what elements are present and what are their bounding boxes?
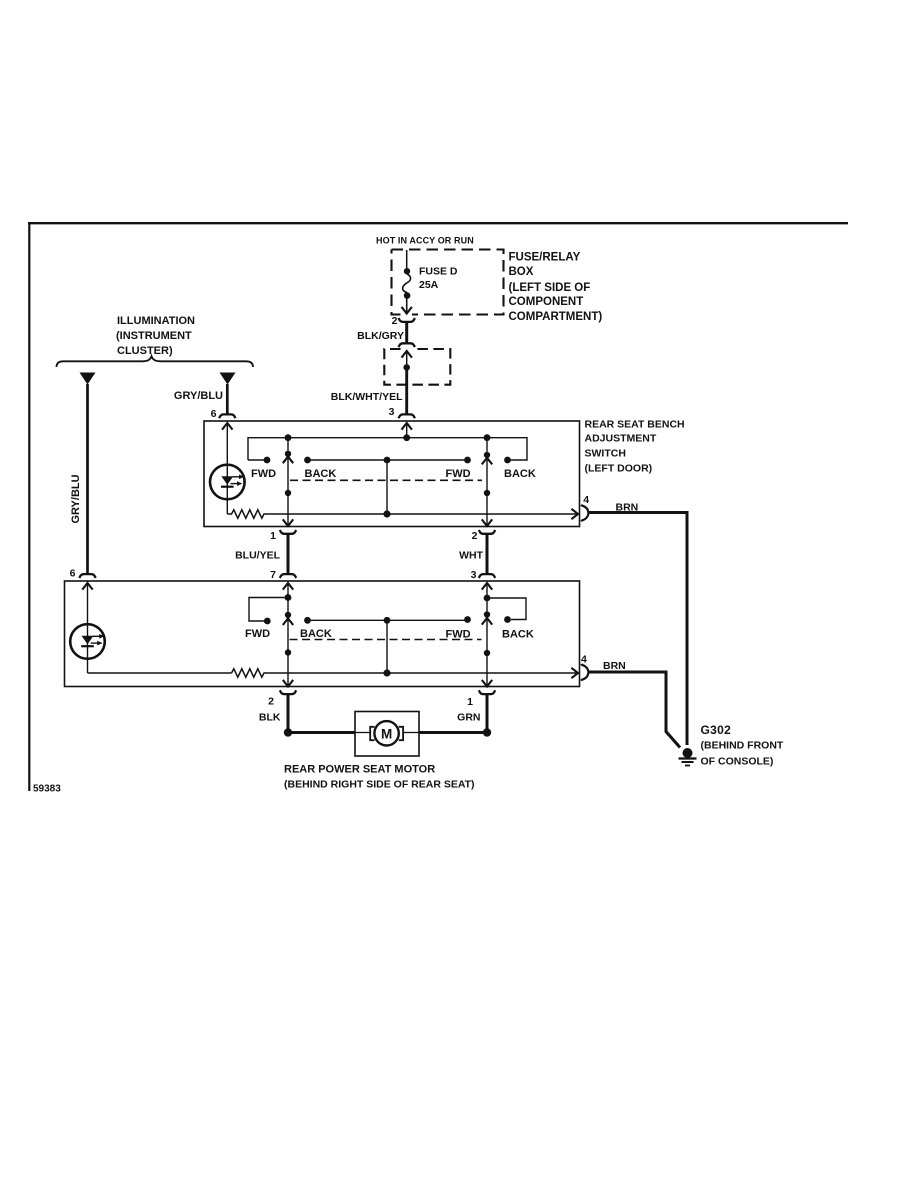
svg-text:BOX: BOX bbox=[509, 266, 534, 278]
fuse/relay box dashed outline bbox=[392, 250, 504, 315]
switch 1 left BACK contact bbox=[304, 457, 311, 464]
switch 2 pin 7 entry arrow bbox=[283, 583, 293, 590]
svg-text:(LEFT DOOR): (LEFT DOOR) bbox=[585, 463, 653, 475]
svg-text:1: 1 bbox=[270, 530, 276, 542]
switch 2 pin 3 entry arrow bbox=[482, 583, 492, 590]
switch 2 right FWD contact bbox=[464, 616, 471, 623]
switch 1 pin 3 entry arrow bbox=[402, 423, 412, 430]
svg-text:(INSTRUMENT: (INSTRUMENT bbox=[116, 330, 192, 342]
wire BRN from switch 2 pin 4 to ground bbox=[588, 672, 680, 748]
svg-text:BLK: BLK bbox=[259, 712, 281, 724]
svg-text:COMPARTMENT): COMPARTMENT) bbox=[509, 311, 603, 323]
node GRN junction bbox=[483, 728, 491, 736]
fuse D 25A symbol bbox=[404, 268, 410, 274]
svg-text:BLK/WHT/YEL: BLK/WHT/YEL bbox=[331, 391, 403, 403]
svg-text:COMPONENT: COMPONENT bbox=[509, 296, 584, 308]
switch 1 pin 2 connector bbox=[479, 530, 495, 534]
svg-text:25A: 25A bbox=[419, 279, 439, 291]
switch 1 rear seat bench adjustment switch box bbox=[204, 421, 580, 527]
switch 1 pin 6 internal wire bbox=[226, 423, 228, 514]
switch 2 pin 7 connector bbox=[280, 574, 296, 578]
svg-text:2: 2 bbox=[268, 696, 274, 708]
illumination LED lamp 2 bbox=[70, 624, 105, 659]
wire GRY/BLU right vertical bbox=[226, 384, 229, 414]
svg-text:HOT IN ACCY OR RUN: HOT IN ACCY OR RUN bbox=[376, 236, 474, 246]
switch 2 pin 4 connector bbox=[581, 664, 588, 681]
switch 1 left FWD contact bbox=[264, 457, 271, 464]
switch 1 mechanical coupling dashed line bbox=[290, 479, 482, 481]
switch 1 left pole bbox=[283, 438, 293, 526]
svg-text:FWD: FWD bbox=[245, 628, 270, 640]
switch 1 pin 3 internal wire bbox=[406, 423, 408, 438]
svg-text:GRY/BLU: GRY/BLU bbox=[174, 390, 223, 402]
svg-text:2: 2 bbox=[392, 315, 398, 327]
svg-text:G302: G302 bbox=[701, 723, 732, 737]
switch 2 pin 4 arrow right bbox=[571, 668, 578, 678]
junction block small dashed box bbox=[384, 349, 450, 385]
wire to motor left bbox=[288, 731, 355, 734]
svg-text:BRN: BRN bbox=[603, 660, 626, 672]
switch 1 bottom rail to pin 4 bbox=[267, 513, 579, 515]
junction dot bottom rail switch 2 bbox=[383, 669, 390, 676]
switch 1 right pole bbox=[482, 438, 492, 526]
switch 2 bottom rail to pin 4 bbox=[267, 672, 579, 674]
switch 2 right BACK contact bbox=[504, 616, 511, 623]
switch 2 pin 6 connector bbox=[79, 574, 95, 578]
wire BLK/WHT/YEL bbox=[405, 367, 408, 414]
junction dots top rail switch 1 bbox=[285, 434, 292, 441]
wire BRN from switch 1 pin 4 to ground bbox=[588, 513, 687, 746]
svg-text:(BEHIND FRONT: (BEHIND FRONT bbox=[701, 740, 784, 752]
svg-text:59383: 59383 bbox=[33, 784, 61, 795]
wire BLK bbox=[287, 694, 290, 732]
ground G302 bbox=[679, 748, 697, 766]
switch 2 mechanical coupling dashed line bbox=[290, 639, 482, 641]
switch 1 right FWD contact bbox=[464, 457, 471, 464]
svg-text:ADJUSTMENT: ADJUSTMENT bbox=[585, 433, 657, 445]
svg-text:6: 6 bbox=[70, 568, 76, 580]
switch 2 pin 2 exit arrow bbox=[283, 680, 293, 687]
svg-text:SWITCH: SWITCH bbox=[585, 448, 626, 460]
svg-text:(BEHIND RIGHT SIDE OF REAR SEA: (BEHIND RIGHT SIDE OF REAR SEAT) bbox=[284, 779, 475, 791]
node BLK junction bbox=[284, 728, 292, 736]
switch 2 left FWD contact bbox=[264, 618, 271, 625]
svg-text:4: 4 bbox=[583, 494, 589, 506]
switch 2 right pole bbox=[482, 583, 492, 687]
svg-text:BRN: BRN bbox=[616, 502, 639, 514]
switch 2 left BACK contact bbox=[304, 617, 311, 624]
wire BLK/GRY bbox=[405, 322, 408, 343]
illumination LED lamp 1 bbox=[210, 465, 245, 500]
svg-text:FUSE D: FUSE D bbox=[419, 266, 458, 278]
svg-text:6: 6 bbox=[211, 408, 217, 420]
wire GRY/BLU left vertical bbox=[86, 384, 89, 574]
arrow into junction block pointing up bbox=[402, 351, 412, 358]
wire GRN bbox=[486, 694, 489, 732]
switch 1 pin 4 arrow right bbox=[571, 509, 578, 519]
svg-text:BLU/YEL: BLU/YEL bbox=[235, 550, 281, 562]
switch 2 pin 3 connector bbox=[479, 574, 495, 578]
arrow out of fuse pointing down bbox=[406, 298, 408, 313]
switch 2 pin 6 entry arrow bbox=[82, 583, 92, 590]
svg-text:REAR POWER SEAT MOTOR: REAR POWER SEAT MOTOR bbox=[284, 764, 435, 776]
switch 2 pin 1 connector bbox=[479, 690, 495, 694]
brace over illumination feeds bbox=[57, 356, 254, 367]
frame top border bbox=[28, 222, 848, 224]
svg-text:FWD: FWD bbox=[446, 468, 471, 480]
svg-text:GRY/BLU: GRY/BLU bbox=[70, 474, 82, 523]
svg-text:4: 4 bbox=[581, 654, 587, 666]
switch 1 middle vertical wire bbox=[386, 460, 388, 514]
switch 2 pin 2 connector bbox=[280, 690, 296, 694]
svg-text:OF CONSOLE): OF CONSOLE) bbox=[701, 756, 774, 768]
switch 1 pin 6 entry arrow bbox=[222, 423, 232, 430]
svg-text:BACK: BACK bbox=[305, 468, 337, 480]
svg-text:BACK: BACK bbox=[502, 629, 534, 641]
switch 2 box bbox=[65, 581, 580, 687]
switch 1 pin 1 exit arrow bbox=[283, 519, 293, 526]
frame left border bbox=[28, 222, 30, 791]
connector into junction block bbox=[399, 343, 415, 347]
switch 2 pin 6 internal wire bbox=[87, 583, 89, 673]
svg-text:ILLUMINATION: ILLUMINATION bbox=[117, 315, 195, 327]
connector at switch 1 pin 3 bbox=[399, 414, 415, 418]
svg-text:GRN: GRN bbox=[457, 712, 480, 724]
switch 1 pin 2 exit arrow bbox=[482, 519, 492, 526]
rear power seat motor M1 bbox=[355, 712, 419, 757]
switch 1 resistor bbox=[227, 510, 266, 518]
switch 2 bottom rail left segment bbox=[88, 672, 232, 674]
switch 1 pin 1 connector bbox=[280, 530, 296, 534]
svg-text:7: 7 bbox=[270, 569, 276, 581]
svg-text:2: 2 bbox=[472, 530, 478, 542]
svg-text:BACK: BACK bbox=[300, 628, 332, 640]
svg-text:(LEFT SIDE OF: (LEFT SIDE OF bbox=[509, 282, 591, 294]
svg-text:FUSE/RELAY: FUSE/RELAY bbox=[509, 252, 581, 264]
svg-text:CLUSTER): CLUSTER) bbox=[117, 345, 173, 357]
switch 1 contact rail bbox=[308, 459, 468, 461]
illumination feed terminal right (triangle) bbox=[220, 373, 236, 385]
switch 2 contact rail bbox=[308, 619, 468, 621]
junction node dot bbox=[403, 364, 410, 371]
wire from hot feed into fuse bbox=[406, 250, 408, 268]
connector at switch 1 pin 6 bbox=[219, 414, 235, 418]
svg-text:1: 1 bbox=[467, 696, 473, 708]
switch 2 pin 1 exit arrow bbox=[482, 680, 492, 687]
svg-text:WHT: WHT bbox=[459, 550, 483, 562]
connector at fuse box pin 2 bbox=[399, 318, 415, 322]
illumination feed terminal left (triangle) bbox=[80, 373, 96, 385]
switch 2 left pole bbox=[283, 583, 293, 687]
switch 2 left L-wire to FWD contact bbox=[249, 598, 288, 622]
switch 2 middle vertical wire bbox=[386, 620, 388, 673]
svg-text:FWD: FWD bbox=[251, 468, 276, 480]
wire WHT bbox=[486, 534, 489, 574]
switch 1 pin 4 connector bbox=[581, 505, 588, 522]
junction dot bottom rail switch 1 bbox=[383, 510, 390, 517]
svg-text:3: 3 bbox=[471, 569, 477, 581]
switch 1 top rail bbox=[248, 438, 527, 460]
svg-text:3: 3 bbox=[389, 406, 395, 418]
wire BLU/YEL bbox=[287, 534, 290, 574]
svg-text:BACK: BACK bbox=[504, 468, 536, 480]
svg-text:REAR SEAT BENCH: REAR SEAT BENCH bbox=[585, 419, 685, 431]
wire to motor right bbox=[419, 731, 487, 734]
svg-text:BLK/GRY: BLK/GRY bbox=[357, 330, 404, 342]
switch 1 right BACK contact bbox=[504, 457, 511, 464]
svg-text:M: M bbox=[381, 727, 392, 742]
switch 2 resistor bbox=[232, 669, 267, 677]
switch 2 right L-wire to BACK contact bbox=[487, 598, 526, 620]
